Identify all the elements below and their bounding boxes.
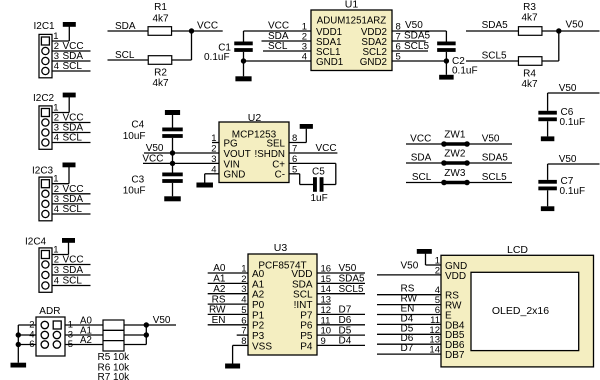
svg-text:A0: A0	[213, 263, 226, 274]
svg-text:0.1uF: 0.1uF	[560, 117, 586, 128]
svg-text:OLED_2x16: OLED_2x16	[492, 305, 549, 317]
svg-text:SCL: SCL	[293, 290, 313, 301]
svg-text:A2: A2	[80, 335, 92, 346]
svg-text:V50: V50	[559, 83, 577, 94]
svg-text:VCC: VCC	[197, 20, 218, 31]
svg-text:D4: D4	[339, 336, 352, 347]
svg-text:VSS: VSS	[252, 341, 272, 352]
svg-text:P4: P4	[300, 341, 313, 352]
svg-text:P1: P1	[252, 310, 265, 321]
svg-text:4k7: 4k7	[521, 13, 538, 24]
svg-text:I2C2: I2C2	[33, 93, 55, 104]
svg-text:1uF: 1uF	[311, 193, 328, 204]
svg-text:I2C3: I2C3	[32, 166, 54, 177]
svg-text:VCC: VCC	[268, 21, 289, 32]
svg-text:10uF: 10uF	[123, 131, 146, 142]
svg-text:SCL5: SCL5	[482, 51, 507, 62]
svg-text:SDA5: SDA5	[482, 153, 509, 164]
svg-text:0.1uF: 0.1uF	[204, 52, 230, 63]
svg-text:C-: C-	[275, 170, 285, 181]
svg-text:SDA5: SDA5	[482, 20, 509, 31]
svg-text:0.1uF: 0.1uF	[452, 65, 478, 76]
svg-text:ADUM1251ARZ: ADUM1251ARZ	[317, 16, 387, 27]
svg-text:V50: V50	[566, 20, 584, 31]
svg-text:0.1uF: 0.1uF	[560, 186, 586, 197]
svg-text:R4: R4	[523, 69, 536, 80]
svg-text:PG: PG	[224, 138, 238, 149]
svg-text:5: 5	[68, 339, 73, 350]
svg-text:VOUT: VOUT	[224, 149, 251, 160]
svg-text:SCL: SCL	[63, 276, 83, 287]
svg-text:V50: V50	[559, 154, 577, 165]
svg-text:I2C4: I2C4	[25, 237, 47, 248]
svg-text:P7: P7	[300, 310, 313, 321]
svg-text:6: 6	[29, 339, 34, 350]
svg-text:V50: V50	[482, 134, 500, 145]
svg-text:SDA: SDA	[63, 265, 84, 276]
svg-text:ZW1: ZW1	[444, 130, 466, 141]
svg-text:SCL5: SCL5	[339, 284, 364, 295]
svg-text:SCL: SCL	[268, 41, 288, 52]
svg-text:ADR: ADR	[39, 306, 60, 317]
svg-text:V50: V50	[401, 260, 419, 271]
svg-text:GND2: GND2	[360, 57, 387, 68]
svg-text:R1: R1	[154, 2, 167, 13]
svg-text:SCL: SCL	[412, 172, 432, 183]
svg-text:A0: A0	[252, 269, 265, 280]
svg-text:4k7: 4k7	[152, 14, 169, 25]
svg-text:U3: U3	[274, 242, 288, 254]
svg-text:LCD: LCD	[507, 244, 528, 256]
svg-text:4: 4	[54, 204, 59, 215]
svg-text:D7: D7	[401, 343, 414, 354]
svg-text:A2: A2	[213, 284, 226, 295]
svg-text:VCC: VCC	[316, 143, 337, 154]
svg-text:SCL: SCL	[63, 204, 83, 215]
svg-text:4: 4	[54, 61, 59, 72]
svg-text:VIN: VIN	[224, 159, 240, 170]
svg-text:VCC: VCC	[63, 255, 84, 266]
svg-text:U2: U2	[248, 112, 262, 124]
svg-text:V50: V50	[153, 315, 171, 326]
svg-text:SEL: SEL	[266, 138, 285, 149]
svg-text:R7 10k: R7 10k	[98, 372, 131, 380]
svg-text:DB7: DB7	[445, 350, 465, 361]
svg-text:R5 10k: R5 10k	[98, 352, 131, 363]
svg-text:4k7: 4k7	[521, 79, 538, 90]
svg-text:V50: V50	[339, 263, 357, 274]
svg-text:I2C1: I2C1	[34, 21, 56, 32]
svg-text:GND1: GND1	[316, 57, 343, 68]
svg-text:SCL: SCL	[63, 61, 83, 72]
svg-text:VDD: VDD	[445, 271, 466, 282]
svg-text:SCL5: SCL5	[404, 41, 429, 52]
svg-text:RW: RW	[209, 305, 226, 316]
svg-text:10uF: 10uF	[123, 186, 146, 197]
svg-text:VCC: VCC	[410, 134, 431, 145]
svg-text:!SHDN: !SHDN	[255, 149, 285, 160]
svg-text:C5: C5	[312, 167, 325, 178]
svg-text:SDA: SDA	[411, 153, 432, 164]
svg-text:R3: R3	[523, 2, 536, 13]
svg-text:2: 2	[54, 255, 59, 266]
svg-text:C+: C+	[272, 159, 285, 170]
svg-text:EN: EN	[212, 315, 226, 326]
svg-text:SCL5: SCL5	[482, 172, 507, 183]
svg-text:VDD: VDD	[291, 269, 312, 280]
svg-text:V50: V50	[405, 20, 423, 31]
svg-text:4: 4	[54, 276, 59, 287]
svg-text:C3: C3	[131, 175, 144, 186]
svg-text:ZW3: ZW3	[444, 168, 466, 179]
svg-text:4: 4	[54, 133, 59, 144]
svg-text:4k7: 4k7	[152, 78, 169, 89]
svg-text:SCL: SCL	[63, 133, 83, 144]
svg-text:U1: U1	[345, 0, 359, 11]
svg-text:GND: GND	[224, 170, 246, 181]
svg-text:R2: R2	[154, 68, 167, 79]
svg-text:3: 3	[54, 265, 59, 276]
svg-text:C4: C4	[131, 120, 144, 131]
svg-text:D7: D7	[339, 305, 352, 316]
svg-text:A2: A2	[252, 290, 265, 301]
svg-text:ZW2: ZW2	[444, 149, 466, 160]
